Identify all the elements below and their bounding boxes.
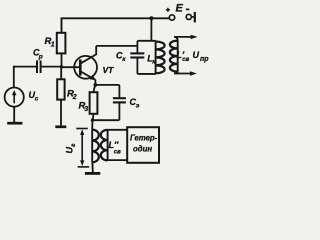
transistor VT emitter lead	[81, 72, 95, 80]
terminal end bar	[194, 12, 196, 23]
wire output top arrow	[174, 37, 191, 41]
transistor VT collector lead	[81, 54, 96, 63]
resistor R3	[90, 92, 98, 114]
svg-text:3: 3	[84, 106, 88, 113]
inductor L'sv (output winding)	[177, 41, 179, 72]
label Ug rotated	[65, 143, 77, 154]
wire rail corner down to R1	[61, 17, 63, 32]
capacitor CK plates	[130, 52, 144, 54]
minus sign	[186, 8, 189, 10]
node CE bottom junction dot	[91, 119, 94, 122]
svg-text:э: э	[136, 103, 140, 110]
arrow Ug double-headed	[81, 133, 83, 163]
wire CE bottom lead	[118, 102, 120, 120]
svg-text:пр: пр	[200, 56, 209, 63]
inductor LK	[155, 41, 157, 74]
transistor VT emitter arrowhead	[90, 75, 96, 80]
capacitor CE plates	[113, 97, 126, 99]
svg-text:U: U	[193, 50, 200, 60]
tick Ug bottom reference	[78, 166, 90, 168]
capacitor C3 (Cp) plates	[36, 60, 38, 73]
terminal +E circle	[169, 15, 174, 20]
svg-text:c: c	[35, 95, 39, 102]
wire emitter node to R3	[94, 85, 95, 92]
wire emitter node to CE	[95, 84, 119, 86]
node base junction dot	[60, 65, 63, 68]
wire top supply rail	[62, 17, 170, 19]
inductor L''sv (heterodyne winding right)	[107, 130, 109, 161]
wire rail down to tank	[150, 18, 152, 41]
wire source top	[13, 66, 15, 88]
source Uc arrow	[13, 94, 15, 104]
wire output bottom arrow	[174, 72, 190, 74]
ground under coil	[85, 172, 100, 175]
wire tank left bottom	[136, 58, 138, 74]
terminal -E circle	[186, 14, 191, 19]
svg-text:L″: L″	[109, 140, 119, 150]
heterodyne box	[127, 127, 159, 163]
transistor VT base bar	[79, 59, 82, 75]
wire CE top lead	[118, 85, 120, 98]
svg-text:г: г	[70, 143, 77, 147]
ground under source	[7, 122, 22, 125]
svg-text:VT: VT	[103, 65, 115, 75]
ground under R2	[55, 125, 66, 128]
wire R3 bottom to coil	[92, 114, 93, 130]
svg-text:один: один	[133, 145, 152, 154]
source Uc circle	[5, 88, 24, 107]
svg-text:св: св	[114, 150, 121, 156]
resistor R1	[57, 33, 66, 54]
wire R1 bottom to base junction	[61, 53, 63, 67]
wire terminal stub	[191, 16, 194, 18]
wire source bottom	[13, 107, 15, 122]
svg-text:2: 2	[72, 94, 77, 101]
wire tank top bar	[137, 40, 155, 42]
wire collector up	[95, 46, 97, 55]
svg-text:E: E	[176, 3, 184, 15]
wire tank bottom bar	[137, 73, 155, 75]
svg-text:Гетер-: Гетер-	[130, 134, 158, 143]
plus sign	[166, 8, 170, 12]
wire CE bottom to R3 bottom	[92, 119, 119, 121]
wire coil to heterodyne box top	[108, 129, 128, 131]
wire Cp to junction	[42, 66, 62, 68]
node junction dot on rail	[149, 16, 153, 20]
wire coil bottom	[91, 162, 93, 172]
tick Ug top reference	[76, 128, 88, 130]
wire base lead	[62, 66, 81, 68]
wire collector to tank	[96, 45, 137, 47]
wire tank left top	[136, 41, 138, 54]
svg-text:р: р	[38, 54, 43, 61]
capacitor C3 (Cp coupling) wire left	[14, 66, 36, 68]
svg-text:св: св	[182, 57, 189, 63]
wire R2 top lead	[60, 67, 62, 79]
wire R2 bottom lead	[60, 100, 62, 126]
svg-text:1: 1	[51, 42, 55, 49]
node emitter junction dot	[94, 83, 98, 87]
wire emitter down to node	[94, 80, 96, 85]
inductor heterodyne coupling winding (left)	[91, 130, 93, 163]
transistor VT circle	[74, 56, 97, 79]
wire coil to heterodyne box bottom	[108, 159, 128, 161]
resistor R2	[57, 79, 64, 99]
